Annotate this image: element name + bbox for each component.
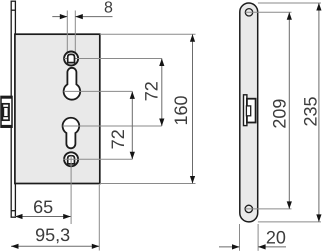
svg-text:160: 160 [171, 95, 191, 125]
extension line body bottom [100, 183, 196, 185]
extension line bottom hole [245, 208, 291, 210]
dimension 72 lower [130, 91, 135, 159]
lower keyhole [63, 118, 162, 149]
extension line plate right vertical [257, 224, 259, 251]
dimension 8 [52, 14, 112, 19]
dimension 65 [15, 214, 71, 219]
svg-text:72: 72 [141, 81, 161, 101]
svg-text:209: 209 [269, 99, 289, 129]
dimension 235 [316, 3, 321, 222]
faceplate front view [240, 3, 258, 222]
top follower nut [64, 52, 162, 66]
extension line plate top [258, 2, 321, 4]
faceplate top screw hole [245, 9, 252, 16]
bottom follower nut [63, 152, 132, 166]
svg-text:65: 65 [33, 197, 53, 217]
faceplate side view strip [11, 1, 15, 217]
svg-text:20: 20 [266, 228, 286, 248]
svg-text:235: 235 [300, 96, 320, 126]
svg-text:72: 72 [108, 129, 128, 149]
dimension 209 [287, 12, 292, 209]
dimension 20 [219, 244, 286, 249]
extension line 8 left [66, 11, 68, 55]
faceplate latch opening [244, 95, 256, 126]
extension line 8 right [74, 11, 76, 55]
extension line plate left vertical [239, 224, 241, 251]
extension line body right vertical [98, 185, 100, 251]
dimension 72 upper [159, 59, 164, 127]
extension line plate bottom [258, 221, 321, 223]
extension line keyhole axis vertical [70, 164, 72, 224]
faceplate bottom screw hole [245, 205, 252, 212]
extension line body top [100, 33, 196, 35]
lock case body [15, 34, 100, 183]
svg-text:8: 8 [104, 0, 113, 16]
dimension 160 [190, 34, 195, 183]
extension line top hole [245, 11, 291, 13]
latch bolt side view [1, 96, 13, 128]
dimension 95,3 [11, 244, 99, 249]
svg-text:95,3: 95,3 [35, 225, 70, 245]
upper keyhole [64, 68, 133, 100]
